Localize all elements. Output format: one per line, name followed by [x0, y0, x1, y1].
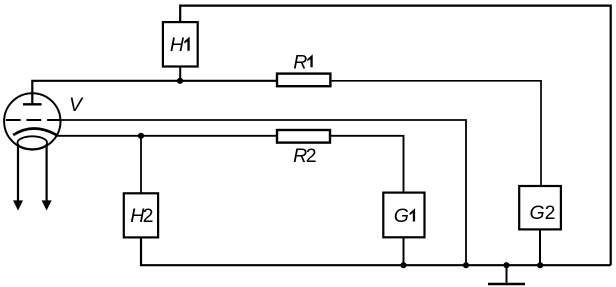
wire: H1 top to right-side supply rail — [180, 6, 611, 266]
ground — [488, 265, 525, 284]
wire: R1 right to G2 top — [332, 81, 541, 186]
svg-text:H: H — [170, 34, 185, 56]
wire: H1 bottom lead — [179, 67, 181, 81]
tube V cathode arc — [13, 128, 56, 135]
svg-text:V: V — [69, 94, 84, 116]
junction: cathode / H2 — [138, 133, 144, 139]
box G2 — [519, 186, 561, 229]
heater lead arrow left — [13, 146, 23, 211]
tube V envelope — [4, 93, 60, 149]
svg-text:R2: R2 — [293, 145, 316, 167]
wire: H2 top lead — [140, 136, 142, 193]
junction: G2 / bottom rail — [537, 262, 543, 268]
tube V plate bar — [23, 103, 42, 105]
svg-text:H2: H2 — [130, 205, 152, 227]
wire: anode lead and top rail to R1 — [32, 81, 277, 104]
box H2 — [124, 193, 158, 237]
heater lead arrow right — [42, 146, 52, 211]
resistor R1 — [277, 74, 330, 87]
junction: ground / bottom rail — [503, 262, 509, 268]
wire: cathode run to R2 — [56, 135, 277, 137]
tube V heater loop — [18, 136, 48, 149]
box G1 — [383, 193, 424, 238]
junction: G1 / bottom rail — [400, 262, 406, 268]
svg-text:G2: G2 — [530, 202, 556, 224]
svg-text:R: R — [293, 51, 307, 73]
wire: R2 right to G1 top — [330, 136, 403, 193]
wire: G1 bottom lead — [403, 238, 405, 266]
svg-text:G: G — [394, 205, 409, 227]
junction: H1 / anode rail — [177, 78, 183, 84]
wire: grid run to bottom rail — [53, 120, 466, 265]
tube V grid electrode (dashed) — [6, 119, 60, 121]
box H1 — [163, 22, 198, 66]
wire: G2 bottom lead — [539, 230, 541, 266]
wire: H2 bottom lead and bottom ground rail — [141, 238, 611, 266]
junction: grid wire / bottom rail — [463, 262, 469, 268]
resistor R2 — [277, 130, 330, 143]
